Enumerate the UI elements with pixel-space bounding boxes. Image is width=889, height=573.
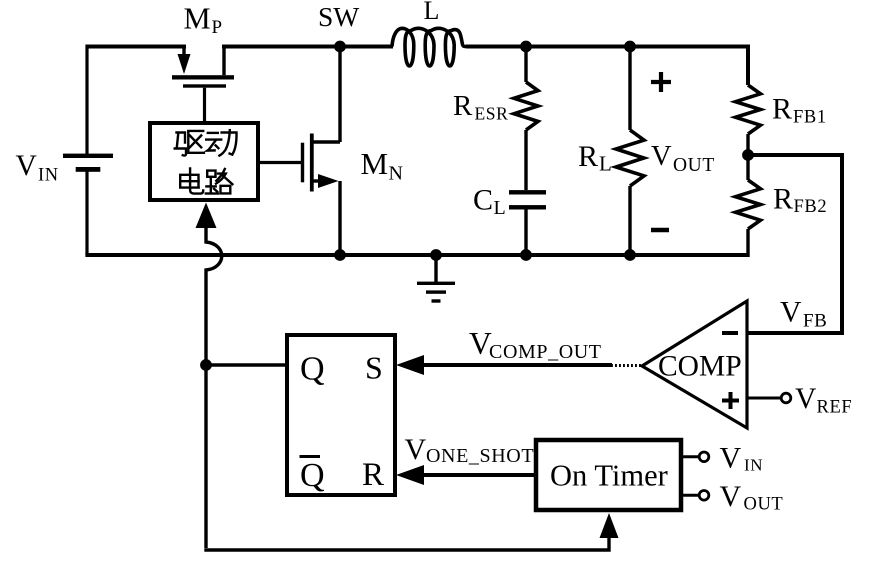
drive circuit block (qudong dianlu) [150, 123, 258, 200]
svg-text:FB2: FB2 [794, 197, 828, 217]
svg-text:R: R [362, 457, 384, 493]
svg-text:REF: REF [817, 398, 853, 418]
svg-text:M: M [361, 146, 389, 181]
wire COMP plus input stub to VREF terminal [747, 397, 781, 400]
resistor RL [616, 130, 644, 186]
node junction dot (RL bottom) [624, 249, 636, 261]
svg-text:P: P [212, 17, 223, 38]
svg-text:IN: IN [744, 456, 763, 475]
wire top rail left segment (VIN+ to MP source) [87, 45, 186, 49]
svg-text:On Timer: On Timer [550, 459, 668, 493]
node junction dot (RESR top) [520, 41, 532, 53]
node junction dot (CL bottom) [520, 249, 532, 261]
svg-text:M: M [184, 1, 211, 35]
svg-text:FB1: FB1 [793, 108, 827, 128]
hanzi DONG: strength part [222, 133, 237, 155]
node junction dot (ground tap) [430, 249, 442, 261]
hanzi DIAN: vertical with hook [190, 169, 203, 194]
latch Qbar overbar [300, 455, 321, 458]
terminal On Timer VOUT circle [699, 491, 709, 501]
transistor MP gate wire to drive box [203, 88, 206, 123]
svg-text:Q: Q [300, 457, 325, 494]
wire VCOMP_OUT solid segment [421, 363, 612, 367]
svg-text:IN: IN [38, 166, 59, 186]
node SW junction dot [334, 41, 346, 53]
arrow into R input [396, 465, 424, 485]
transistor MN gate wire from drive box [258, 161, 302, 164]
transistor MN gate bar [301, 143, 304, 183]
wire control net vertical with crossover hop at ground rail [206, 226, 222, 548]
wire VIN left vertical top [85, 45, 88, 157]
node junction dot (MN source rail) [334, 249, 346, 261]
wire On Timer VIN stub [681, 455, 699, 458]
COMP plus input sign [722, 392, 739, 409]
transistor MP channel bar [172, 75, 234, 79]
wire VCOMP_OUT dotted segment near COMP apex [611, 364, 641, 367]
COMP minus input sign [722, 331, 738, 335]
hanzi DONG: cloud part [208, 132, 218, 134]
transistor MN source lead with right arrow [313, 179, 322, 182]
VOUT minus sign [651, 228, 669, 233]
transistor MP gate bar [183, 84, 226, 87]
svg-text:L: L [424, 0, 440, 25]
ground symbol [417, 282, 455, 285]
wire RL bottom lead [628, 186, 631, 255]
transistor MP drain lead [222, 45, 225, 76]
SR latch box [287, 335, 395, 495]
svg-text:ONE_SHOT: ONE_SHOT [426, 445, 534, 467]
wire latch Q output to left node [206, 363, 287, 366]
wire SW node to MN drain [338, 47, 341, 143]
node junction dot (RL top) [624, 41, 636, 53]
svg-text:L: L [599, 152, 612, 176]
svg-text:COMP_OUT: COMP_OUT [489, 341, 602, 363]
wire RESR top lead [524, 47, 527, 83]
svg-text:R: R [453, 90, 473, 122]
svg-text:V: V [16, 150, 37, 182]
svg-text:V: V [795, 383, 817, 415]
wire VFB net: FB node right, down, into COMP minus input [747, 155, 842, 333]
arrow into drive box bottom [196, 203, 217, 229]
svg-text:R: R [578, 140, 598, 173]
svg-text:R: R [772, 93, 792, 126]
inductor L coil [392, 28, 467, 66]
svg-text:N: N [389, 163, 403, 185]
svg-text:COMP: COMP [658, 351, 742, 383]
node FB junction dot [742, 149, 754, 161]
op-amp comparator COMP triangle [642, 301, 747, 428]
wire RFB1 bottom lead to FB node [746, 134, 749, 180]
wire L to RFB1 top corner [466, 47, 748, 86]
wire bottom ground rail [85, 253, 748, 257]
hanzi DIAN: box [180, 175, 199, 188]
svg-text:C: C [473, 184, 493, 217]
On Timer block [536, 440, 681, 510]
capacitor CL bottom plate [509, 205, 546, 209]
hanzi LU: ge part [216, 169, 225, 181]
svg-text:OUT: OUT [673, 155, 715, 176]
wire RFB2 bottom lead [746, 229, 749, 257]
transistor MP source lead with down arrow [182, 47, 185, 59]
hanzi DIAN: middle bar [180, 180, 198, 182]
hanzi QU: horse radical [177, 133, 186, 143]
hanzi LU: foot radical [207, 171, 215, 177]
svg-text:V: V [720, 442, 742, 475]
resistor RFB2 [736, 180, 761, 229]
hanzi QU: right part [188, 130, 203, 132]
resistor RESR [514, 82, 538, 130]
svg-text:V: V [720, 480, 742, 513]
svg-text:V: V [780, 297, 802, 329]
wire VIN left vertical bottom [85, 169, 88, 255]
arrow into S input [396, 355, 424, 375]
wire On Timer VOUT stub [681, 494, 699, 497]
wire RESR to CL [524, 130, 527, 190]
svg-text:FB: FB [803, 311, 827, 332]
arrow into On Timer bottom [600, 513, 619, 538]
wire VONE_SHOT: On Timer to latch R input [421, 473, 537, 477]
transistor MN drain lead [313, 140, 340, 143]
wire CL bottom lead [524, 209, 527, 255]
terminal VREF circle [781, 393, 791, 403]
VOUT plus sign [651, 72, 671, 92]
node junction dot (Q output / control net) [200, 359, 212, 371]
resistor RFB1 [736, 85, 761, 134]
wire RL top lead [628, 47, 631, 131]
svg-text:V: V [651, 141, 672, 172]
svg-text:OUT: OUT [744, 495, 784, 515]
wire MN source to bottom rail [338, 181, 341, 255]
battery VIN: long plate [63, 154, 113, 158]
svg-text:Q: Q [300, 351, 325, 388]
terminal On Timer VIN circle [699, 452, 709, 462]
capacitor CL top plate [509, 190, 546, 194]
svg-text:V: V [405, 433, 427, 466]
svg-text:L: L [494, 197, 506, 219]
wire ground stub [434, 255, 437, 283]
svg-text:S: S [365, 350, 383, 386]
wire top rail right segment (MP drain to SW node to L) [222, 45, 393, 49]
svg-text:R: R [773, 183, 793, 216]
svg-text:SW: SW [318, 1, 359, 32]
battery VIN: short plate [76, 167, 101, 172]
transistor MN channel bar [310, 134, 314, 192]
wire control net bottom horizontal run to On Timer [204, 538, 609, 550]
svg-text:ESR: ESR [475, 104, 509, 124]
